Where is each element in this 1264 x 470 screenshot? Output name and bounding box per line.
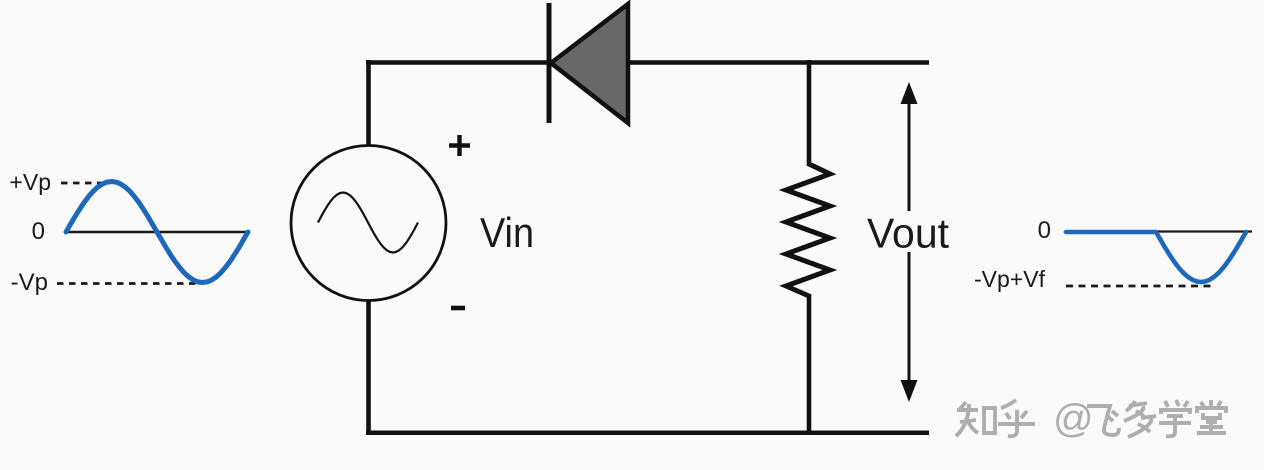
wire resistor branch bottom [807,294,812,435]
Vout measurement arrow [901,82,918,402]
diode cathode bar [547,3,552,123]
output waveform group [974,217,1252,292]
diode D1 [549,3,628,123]
resistor R1 [786,164,830,296]
input waveform group [9,169,249,296]
wire bottom horizontal [366,431,929,436]
input axis line [66,231,249,234]
glyph 知 [956,402,995,436]
svg-text:-Vp: -Vp [11,269,48,296]
wire left vertical lower [366,299,371,435]
svg-text:Vin: Vin [480,209,534,256]
svg-text:0: 0 [32,218,45,245]
glyph 飞 [1087,406,1119,435]
wire left vertical upper [366,60,371,147]
dashed leader to +Vp peak [61,182,110,185]
output axis line [1066,230,1252,232]
diode triangle [551,4,628,123]
svg-text:+Vp: +Vp [9,169,51,195]
svg-text:0: 0 [1038,217,1051,244]
wire resistor branch top [807,60,812,166]
input sine wave [66,182,248,283]
dashed leader to -Vp+Vf level [1066,285,1214,288]
glyph 堂 [1197,400,1226,433]
minus sign [451,306,465,311]
wire top horizontal [366,60,929,65]
circuit wires [366,60,929,435]
glyph 乎 [998,400,1035,436]
plus sign [449,135,470,156]
AC source V1 [291,146,446,301]
output waveform [1066,232,1246,282]
svg-text:-Vp+Vf: -Vp+Vf [974,266,1046,292]
svg-text:Vout: Vout [867,210,949,257]
glyph 学 [1159,400,1191,436]
source sine symbol [318,193,418,253]
svg-text:@: @ [1053,397,1094,441]
source circle [291,146,446,301]
dashed leader to -Vp trough [57,282,202,285]
watermark 知乎 @飞多学堂 [956,397,1226,441]
label Vout (with halo over arrow stem) [862,211,954,252]
glyph 多 [1124,401,1156,437]
